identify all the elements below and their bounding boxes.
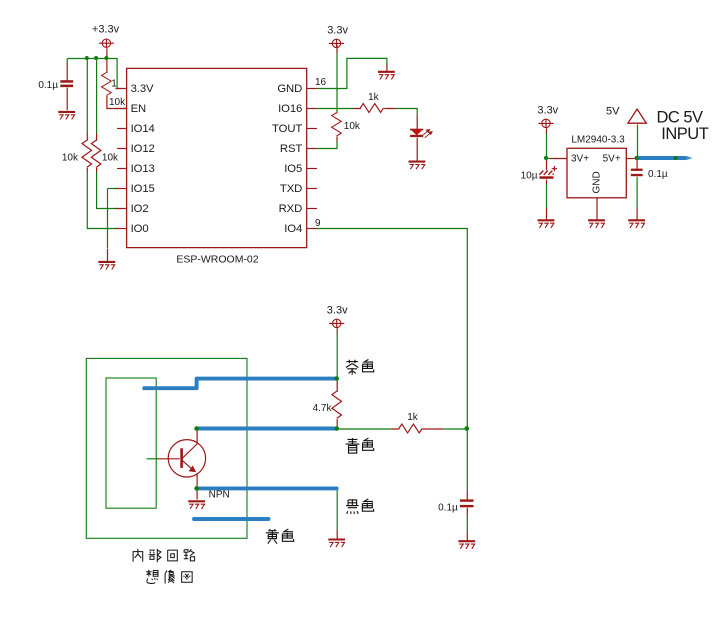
svg-text:4.7k: 4.7k [313, 403, 333, 414]
svg-text:1k: 1k [368, 92, 380, 103]
svg-text:IO2: IO2 [131, 203, 149, 215]
svg-text:10k: 10k [62, 153, 79, 164]
svg-text:3.3v: 3.3v [327, 305, 348, 317]
svg-text:LM2940-3.3: LM2940-3.3 [571, 134, 625, 145]
svg-text:3.3V: 3.3V [131, 83, 154, 95]
svg-text:3.3v: 3.3v [537, 105, 558, 117]
svg-text:IO4: IO4 [284, 223, 302, 235]
svg-text:1: 1 [111, 79, 117, 90]
svg-text:3.3v: 3.3v [327, 24, 348, 36]
svg-text:0.1µ: 0.1µ [438, 502, 458, 513]
svg-text:IO12: IO12 [131, 143, 155, 155]
svg-text:RST: RST [280, 143, 302, 155]
svg-text:10µ: 10µ [521, 170, 538, 181]
svg-text:IO13: IO13 [131, 163, 155, 175]
svg-text:0.1µ: 0.1µ [648, 169, 668, 180]
svg-text:5V+: 5V+ [603, 153, 621, 164]
svg-text:GND: GND [277, 83, 302, 95]
svg-text:IO5: IO5 [284, 163, 302, 175]
svg-text:RXD: RXD [279, 203, 303, 215]
svg-text:9: 9 [315, 218, 321, 229]
svg-text:IO15: IO15 [131, 183, 155, 195]
svg-text:ESP-WROOM-02: ESP-WROOM-02 [176, 253, 258, 265]
svg-text:IO0: IO0 [131, 223, 149, 235]
svg-text:16: 16 [315, 77, 327, 88]
svg-text:INPUT: INPUT [661, 125, 708, 143]
svg-text:10k: 10k [344, 121, 361, 132]
svg-text:EN: EN [131, 103, 147, 115]
svg-text:5V: 5V [606, 106, 620, 118]
svg-text:IO14: IO14 [131, 123, 155, 135]
svg-text:TXD: TXD [280, 183, 302, 195]
svg-text:1k: 1k [407, 412, 419, 423]
svg-text:10k: 10k [102, 153, 119, 164]
svg-text:+3.3v: +3.3v [92, 24, 120, 36]
svg-text:IO16: IO16 [278, 103, 302, 115]
svg-text:NPN: NPN [209, 490, 230, 501]
svg-text:3V+: 3V+ [571, 153, 589, 164]
svg-text:GND: GND [592, 171, 603, 193]
svg-text:10k: 10k [109, 97, 126, 108]
svg-text:0.1µ: 0.1µ [38, 80, 58, 91]
svg-text:TOUT: TOUT [272, 123, 302, 135]
